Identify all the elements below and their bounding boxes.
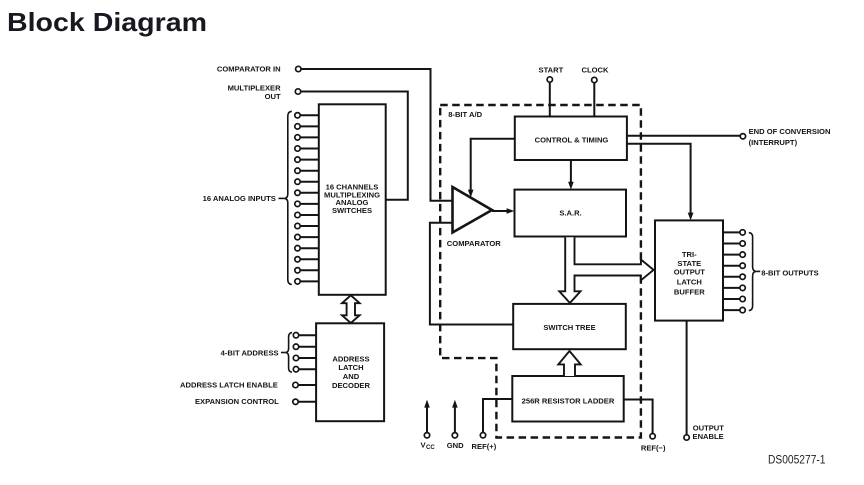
svg-text:LATCH: LATCH (338, 363, 363, 372)
svg-text:REF(+): REF(+) (472, 442, 497, 451)
svg-text:ADDRESS: ADDRESS (332, 354, 369, 363)
svg-text:256R RESISTOR LADDER: 256R RESISTOR LADDER (522, 396, 615, 405)
svg-text:ENABLE: ENABLE (693, 432, 724, 441)
svg-text:OUT: OUT (265, 92, 281, 101)
svg-text:8-BIT A/D: 8-BIT A/D (448, 110, 482, 119)
svg-text:GND: GND (447, 441, 464, 450)
svg-text:S.A.R.: S.A.R. (559, 208, 581, 217)
svg-text:REF(−): REF(−) (641, 443, 666, 452)
svg-text:STATE: STATE (677, 259, 701, 268)
svg-text:COMPARATOR: COMPARATOR (447, 239, 502, 248)
svg-text:OUTPUT: OUTPUT (693, 423, 725, 432)
svg-text:EXPANSION CONTROL: EXPANSION CONTROL (195, 397, 279, 406)
svg-text:(INTERRUPT): (INTERRUPT) (749, 138, 798, 147)
svg-text:AND: AND (343, 372, 360, 381)
svg-text:END OF CONVERSION: END OF CONVERSION (749, 127, 831, 136)
svg-text:16 ANALOG INPUTS: 16 ANALOG INPUTS (203, 194, 276, 203)
svg-text:4-BIT ADDRESS: 4-BIT ADDRESS (221, 348, 279, 357)
svg-text:CONTROL & TIMING: CONTROL & TIMING (535, 136, 609, 145)
svg-text:START: START (539, 66, 564, 75)
svg-text:TRI-: TRI- (682, 250, 697, 259)
svg-text:CLOCK: CLOCK (582, 66, 610, 75)
svg-text:ADDRESS LATCH ENABLE: ADDRESS LATCH ENABLE (180, 381, 278, 390)
svg-text:SWITCHES: SWITCHES (332, 206, 372, 215)
svg-text:OUTPUT: OUTPUT (674, 268, 706, 277)
svg-text:DECODER: DECODER (332, 381, 370, 390)
svg-text:CC: CC (426, 445, 435, 451)
svg-text:SWITCH TREE: SWITCH TREE (543, 323, 595, 332)
svg-text:LATCH: LATCH (677, 278, 702, 287)
svg-text:BUFFER: BUFFER (674, 288, 705, 297)
svg-text:DS005277-1: DS005277-1 (768, 452, 826, 466)
svg-text:COMPARATOR IN: COMPARATOR IN (217, 65, 281, 74)
svg-text:8-BIT OUTPUTS: 8-BIT OUTPUTS (761, 268, 818, 277)
svg-text:MULTIPLEXER: MULTIPLEXER (228, 83, 282, 92)
svg-text:Block Diagram: Block Diagram (7, 7, 207, 37)
